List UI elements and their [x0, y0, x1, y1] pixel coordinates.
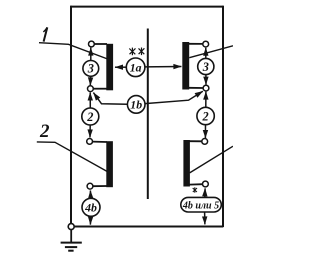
terminal node (bottom-left bar, upper)	[87, 139, 93, 145]
enclosure box left border	[70, 6, 72, 224]
svg-text:1b: 1b	[130, 98, 142, 112]
ground node on enclosure bottom-left corner	[68, 224, 74, 230]
wire: top-left bar bottom connector	[93, 88, 107, 90]
terminal node (top-right bar, lower)	[203, 85, 209, 91]
leader line from label 1 to left electrode	[39, 43, 107, 59]
oval label "4b или 5"	[181, 197, 222, 212]
svg-text:1a: 1a	[130, 61, 142, 75]
svg-text:4b или 5: 4b или 5	[182, 201, 219, 212]
arrow from left circle 2 up to lower-left terminal	[89, 93, 91, 108]
leader line to bottom-right electrode	[190, 146, 233, 173]
leader line to top-right electrode	[189, 46, 233, 58]
arrow from right circle 2 down to bottom-right bar terminal	[204, 125, 206, 138]
terminal node (top-right bar, upper)	[203, 41, 209, 47]
arrow from 1a left to top-left bar	[115, 66, 126, 68]
svg-text:3: 3	[87, 62, 94, 76]
circled label 3 (left)	[83, 61, 99, 77]
leader line from label 2 to bottom-left electrode	[37, 142, 107, 172]
svg-text:2: 2	[202, 109, 209, 123]
wire: bottom-right bar top connector	[190, 140, 203, 142]
wire: top-right bar bottom connector	[189, 87, 203, 89]
ground stem wire	[70, 230, 72, 243]
ground symbol	[61, 243, 82, 251]
svg-text:3: 3	[202, 60, 209, 74]
arrow from 1b right to lower-right terminal	[145, 91, 203, 103]
circled label 3 (right)	[198, 58, 214, 74]
circled label 2 (left)	[82, 108, 99, 125]
arrow from 1b left to lower-left terminal	[93, 93, 127, 105]
top-left electrode bar	[106, 44, 113, 91]
arrow from oval up to bottom-right bar lower terminal	[204, 188, 206, 197]
circled label 4b	[82, 198, 100, 216]
circled label 1a	[126, 58, 145, 77]
top-right electrode bar	[182, 42, 189, 90]
terminal node (top-left bar, lower)	[88, 86, 94, 92]
arrow from 4b down to enclosure bottom	[89, 217, 91, 225]
wire: bottom-left bar top connector	[92, 141, 107, 143]
arrow from 1a right to top-right bar	[145, 66, 181, 68]
bottom-right electrode bar	[183, 140, 190, 187]
arrow from oval down to enclosure bottom	[204, 212, 206, 224]
terminal node (top-left bar, upper)	[89, 41, 95, 47]
bottom-left electrode bar	[106, 141, 113, 187]
arrow from circle 3 up to upper terminal	[90, 48, 92, 60]
wire: bottom-right bar bottom connector	[190, 183, 203, 185]
enclosure box bottom border	[74, 226, 223, 228]
terminal node (bottom-right bar, lower)	[203, 181, 209, 187]
arrow from right circle 3 up to upper terminal	[205, 48, 207, 58]
terminal node (bottom-right bar, upper)	[202, 139, 208, 145]
wire: bottom-left bar bottom connector	[93, 185, 108, 187]
arrow from right circle 2 up to lower-right terminal	[205, 92, 207, 108]
asterisk mark * beside oval label	[193, 187, 197, 192]
middle divider line	[147, 29, 149, 200]
svg-text:2: 2	[39, 121, 50, 142]
arrow from right circle 3 down to lower terminal	[205, 75, 207, 85]
arrow from circle 3 down to lower terminal	[89, 77, 91, 86]
svg-text:4b: 4b	[84, 201, 97, 215]
wire: top-right bar top connector	[189, 43, 203, 45]
svg-text:2: 2	[86, 110, 93, 124]
asterisk marks ** above circle 1a	[129, 48, 144, 56]
arrow from left circle 2 down to bottom-left bar terminal	[89, 125, 91, 137]
wire: top-left bar top connector	[94, 43, 107, 45]
arrow from 4b up to bottom-left bar lower terminal	[89, 191, 91, 199]
circled label 2 (right)	[197, 107, 214, 124]
label 1	[44, 27, 48, 41]
enclosure box right border	[222, 6, 224, 227]
terminal node (bottom-left bar, lower)	[87, 183, 93, 189]
enclosure box top border	[70, 6, 223, 8]
circled label 1b	[127, 96, 145, 114]
